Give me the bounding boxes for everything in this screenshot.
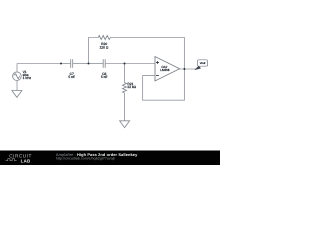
svg-text:http://circuitlab.com/c/hq62gt: http://circuitlab.com/c/hq62gt77uvq6	[56, 156, 115, 160]
wire op-amp output	[180, 68, 196, 70]
V1 arrow glyph	[15, 74, 18, 79]
wire C7 to node A	[73, 63, 89, 65]
svg-text:Vout: Vout	[200, 61, 206, 65]
logo waveform	[6, 159, 17, 161]
wire V1 top stub	[16, 64, 18, 73]
capacitor C8	[103, 59, 105, 68]
voltage source V1 body	[13, 72, 22, 81]
svg-text:LAB: LAB	[21, 158, 31, 163]
junction node B	[124, 63, 126, 65]
wire node A riser to top	[89, 38, 99, 64]
svg-text:22 kΩ: 22 kΩ	[127, 85, 136, 89]
wire node A to C8	[89, 63, 104, 65]
wire V1 to ground	[16, 81, 18, 91]
svg-text:LM358: LM358	[160, 68, 170, 72]
wire main line V1 to joint	[17, 63, 61, 65]
wire joint to C7	[61, 63, 71, 65]
ground V1	[12, 91, 22, 98]
resistor R21 lead	[124, 64, 126, 83]
wire - input feedback loop	[143, 69, 185, 100]
junction node A	[88, 63, 90, 65]
svg-text:5 nF: 5 nF	[68, 75, 75, 79]
junction output node	[183, 68, 185, 70]
ground R21	[120, 121, 130, 128]
wire C8 to junction B	[105, 63, 124, 65]
capacitor C7	[71, 59, 73, 68]
V1 sine glyph	[14, 74, 20, 78]
junction dot wire joint	[60, 63, 62, 65]
svg-text:1 kHz: 1 kHz	[23, 76, 32, 80]
resistor R20	[98, 36, 110, 40]
wire R21 to ground	[124, 93, 126, 121]
op-amp U1 OA7 body	[155, 57, 180, 82]
resistor R21	[123, 83, 127, 93]
V1 arrow head	[17, 78, 19, 80]
wire junction B to op-amp + input	[125, 63, 156, 65]
net flag Vout tail	[194, 66, 201, 70]
svg-text:120 Ω: 120 Ω	[99, 45, 108, 49]
op-amp - pin mark	[156, 75, 159, 77]
footer bar	[0, 151, 220, 166]
op-amp + pin mark	[156, 61, 159, 64]
wire R20 to right vertical down to output	[110, 38, 184, 70]
svg-text:5 nF: 5 nF	[101, 75, 108, 79]
net flag Vout box	[197, 60, 207, 66]
